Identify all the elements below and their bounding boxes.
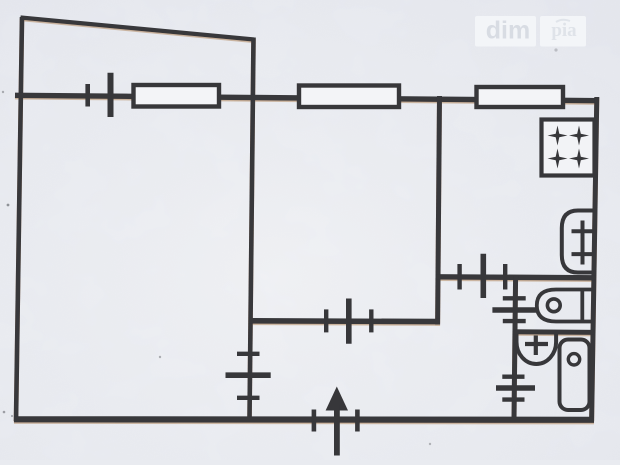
window W3 <box>477 87 564 107</box>
burner 3 <box>548 149 568 169</box>
door bath tick short B <box>502 397 524 401</box>
door kitchen tick long <box>480 254 486 298</box>
burner 1 <box>548 126 568 146</box>
door wc tick short A <box>503 296 526 300</box>
window W1 <box>134 85 220 107</box>
wall room divider (balcony right / living-bedroom / living-hall) <box>250 38 254 420</box>
entrance arrow <box>326 387 348 456</box>
door living tick long <box>226 372 271 378</box>
door bedroom tick long <box>346 299 352 344</box>
burner 4 <box>569 149 589 169</box>
bathtub <box>560 340 590 411</box>
wall top outer <box>15 95 599 100</box>
wall hall-kitchen horizontal <box>436 277 596 278</box>
door bedroom tick short B <box>369 309 373 332</box>
stove <box>542 120 595 176</box>
window W2 <box>299 86 399 108</box>
door living tick short A <box>237 352 260 356</box>
door balcony tick long <box>108 73 114 117</box>
door living tick short B <box>237 396 260 400</box>
scan specks <box>2 48 558 445</box>
door wc tick short B <box>503 319 526 323</box>
wall balcony slanted front <box>21 18 255 40</box>
wall right outer <box>592 97 597 421</box>
wall wc-bath left <box>514 276 516 419</box>
wall bottom outer <box>14 416 594 423</box>
washbasin <box>517 334 557 365</box>
door wc tick long <box>492 307 537 312</box>
door bath tick long <box>496 385 535 390</box>
kitchen sink unit <box>562 211 594 273</box>
wall left outer <box>16 17 22 421</box>
wall bedroom bottom <box>249 318 441 324</box>
door bedroom tick short A <box>324 309 328 332</box>
door entrance tick left <box>312 410 317 432</box>
wall kitchen left <box>438 96 440 325</box>
toilet <box>537 290 593 322</box>
door kitchen tick short B <box>503 264 507 290</box>
burner 2 <box>569 126 589 146</box>
door balcony tick short <box>85 84 90 107</box>
svg-text:ріа: ріа <box>551 20 577 41</box>
door kitchen tick short A <box>457 264 461 290</box>
door bath tick short A <box>502 375 524 379</box>
wall wc-bath divider horizontal <box>513 329 595 335</box>
door entrance tick right <box>355 410 360 432</box>
svg-text:dim: dim <box>486 17 530 45</box>
watermark dim ria box <box>475 16 586 47</box>
